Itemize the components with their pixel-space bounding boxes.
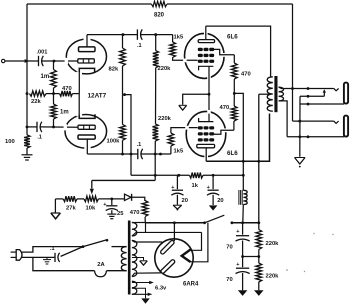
ground jacks <box>295 158 306 168</box>
svg-text:100k: 100k <box>107 139 121 145</box>
label 6L6 lower <box>227 150 238 157</box>
svg-text:+: + <box>236 262 239 268</box>
label 6.3v <box>155 286 167 292</box>
svg-text:22k: 22k <box>31 99 41 105</box>
wire 1m node to 470 <box>54 93 60 95</box>
svg-text:10k: 10k <box>86 206 96 212</box>
node choke column junctions <box>242 174 245 177</box>
ground cap70b <box>238 290 248 296</box>
capacitor 70 second <box>226 257 249 284</box>
resistor 220k psu lower <box>256 263 279 282</box>
svg-text:1m: 1m <box>41 74 50 80</box>
ground cap20a <box>173 205 182 210</box>
wire cathode tee to ground <box>183 94 209 105</box>
wire V3 screen hook <box>214 130 234 134</box>
rectifier V4 plate 1 <box>160 240 175 255</box>
wire cap20a to ground <box>176 195 178 205</box>
svg-text:25: 25 <box>117 211 124 217</box>
wire cap line branch <box>33 256 55 258</box>
wire V3 plate down <box>205 148 207 162</box>
resistor 220k upper <box>153 51 171 72</box>
svg-text:6L6: 6L6 <box>227 34 238 41</box>
capacitor .1 line <box>50 246 60 262</box>
wire 470 to cathode link <box>73 93 80 95</box>
wire 1k5 upper top <box>172 35 174 42</box>
wire left feedback rail down <box>26 4 28 135</box>
jack J2 tip contact <box>334 121 339 124</box>
resistor 220k lower <box>153 116 172 141</box>
potentiometer 10k <box>84 196 98 211</box>
wire 82k top lead <box>122 35 124 48</box>
wire B+ filter line right <box>203 174 243 176</box>
svg-text:70: 70 <box>226 277 232 283</box>
svg-text:20: 20 <box>217 198 223 204</box>
rectifier V4 plate 2 <box>160 259 175 274</box>
wire 1k5 lower bottom <box>170 146 172 154</box>
wire rectifier plate loop top <box>191 232 202 250</box>
capacitor .1 coupling upper <box>137 29 142 48</box>
wire B+ filter line <box>131 174 190 176</box>
node 82k top <box>122 33 125 36</box>
wire OT secondary top lead <box>279 87 293 88</box>
plug body <box>16 250 22 261</box>
wire HV center tap <box>132 258 144 261</box>
wire V1b plate down <box>86 139 88 154</box>
wire cathode link to V3 <box>208 94 210 121</box>
wire 220k psu upper leads <box>258 223 260 257</box>
transformer T2 secondary <box>279 87 284 101</box>
wire plug top <box>22 247 83 253</box>
svg-text:6AR4: 6AR4 <box>183 282 199 288</box>
wire 1k5 upper to grid <box>173 57 198 60</box>
resistor 470 bias <box>130 201 148 217</box>
wire cap25 to ground <box>111 210 113 214</box>
junction grid1 node <box>53 60 56 63</box>
node cathode tee <box>208 93 211 96</box>
wire feedback top rail right segment <box>167 3 293 5</box>
diode D1 <box>125 194 132 201</box>
fuse 2A <box>95 262 107 277</box>
triode V1a envelope <box>65 38 107 76</box>
plug prongs <box>11 252 17 257</box>
pentode V2 envelope <box>183 32 226 80</box>
transformer T2 primary <box>267 77 273 111</box>
svg-text:.1: .1 <box>137 43 142 49</box>
svg-text:+: + <box>103 202 106 208</box>
wire bias feed vertical <box>154 154 156 180</box>
ground 6L6 cathodes <box>179 105 187 110</box>
wire standby line right <box>232 222 259 224</box>
pentode V2 plate <box>198 40 214 43</box>
wire feedback right rail down <box>292 4 294 121</box>
transformer T1 primary <box>121 247 126 271</box>
wire HV top lead <box>132 240 162 242</box>
svg-text:470: 470 <box>241 72 251 78</box>
svg-text:1m: 1m <box>60 110 69 116</box>
wire cap to grid <box>42 60 78 62</box>
resistor 1k5 upper <box>170 35 184 58</box>
svg-text:20: 20 <box>182 198 188 204</box>
triode V1b plate <box>78 135 95 139</box>
svg-text:1k5: 1k5 <box>174 149 184 155</box>
triode V1b grid <box>78 125 95 129</box>
wire V2 plate up <box>205 26 207 39</box>
speck marks <box>286 233 333 272</box>
rectifier V4 envelope <box>155 239 193 277</box>
pentode V3 envelope <box>185 110 227 159</box>
jack J1 tip contact <box>334 88 339 91</box>
node plate2 junctions <box>121 153 132 156</box>
svg-text:220k: 220k <box>158 66 172 72</box>
wire HV bottom lead <box>132 273 161 277</box>
node jack1 shorting junction <box>307 95 310 98</box>
svg-text:470: 470 <box>220 105 230 111</box>
wire V1a cathode down <box>78 73 80 94</box>
wire 470 screen lower to node <box>233 93 235 106</box>
wire jack1 tip line <box>293 88 334 90</box>
wire jack1 sleeve line <box>300 103 344 105</box>
wire 470 bias to line <box>144 217 146 223</box>
ground cap25 <box>107 214 116 219</box>
wire jack2 tip line <box>293 120 334 122</box>
wire wiper stem <box>91 180 93 188</box>
node jack2 sleeve junctions <box>298 135 309 138</box>
svg-text:.1: .1 <box>37 134 42 140</box>
pentode V3 plate <box>197 144 215 147</box>
triode V1a grid <box>78 59 95 63</box>
svg-text:820: 820 <box>154 13 165 19</box>
resistor 22k <box>30 91 47 105</box>
choke L1 coil <box>243 190 247 204</box>
wire 220k upper top lead <box>155 35 157 51</box>
wire 22k to 1m node <box>46 93 54 95</box>
wire V3 plate line to OT <box>206 114 269 162</box>
wire fuse to primary <box>107 270 127 272</box>
ground below 100 <box>22 155 33 160</box>
node rectifier junction <box>173 221 176 224</box>
wire V2 screen hook <box>214 49 234 54</box>
wire pot to diode <box>98 198 124 200</box>
wire cap20b to ground <box>212 195 214 205</box>
ground line cap <box>43 257 51 264</box>
wire heater top lead <box>132 281 154 284</box>
resistor 1m lower <box>51 104 69 119</box>
wire 82k bottom lead <box>122 66 124 95</box>
choke L1 core <box>239 190 242 205</box>
wire plate2 line <box>87 153 138 155</box>
svg-text:82k: 82k <box>109 67 119 73</box>
node B+ filter junctions <box>154 174 180 177</box>
ground cap20b <box>209 205 218 210</box>
node cap25 junction <box>110 197 113 200</box>
node 220k top <box>154 33 157 36</box>
wire center tap rail <box>258 94 260 223</box>
wire plug bottom <box>22 257 95 270</box>
svg-text:220k: 220k <box>158 116 172 122</box>
wire cap70a down <box>242 241 244 257</box>
wire 220k lower bottom lead <box>154 141 156 154</box>
triode V1a plate <box>79 47 96 52</box>
svg-text:220k: 220k <box>266 241 280 247</box>
wire standby line left <box>145 222 204 224</box>
wire screen node to choke column <box>234 93 243 190</box>
wire V2 screen to 470 <box>233 55 235 63</box>
transformer T1 bias winding <box>132 223 137 237</box>
ground 220k psu <box>254 290 263 296</box>
capacitor .1 coupling lower <box>137 142 143 159</box>
wire 470 screen upper to node <box>233 79 235 93</box>
ground 27k <box>51 213 61 219</box>
wire V1a plate up <box>86 35 88 47</box>
wire 100 to ground <box>26 148 28 155</box>
wire bias jog <box>92 179 155 181</box>
rectifier V4 filament <box>182 250 191 263</box>
wire jack2 sleeve line <box>287 136 344 138</box>
node grid2 junctions <box>26 125 55 128</box>
wire 100k top lead <box>122 95 124 125</box>
node plate line crossings <box>242 160 260 163</box>
pentode V2 grid rows <box>198 48 214 63</box>
wire diode to 470 bias <box>132 197 145 201</box>
svg-text:+: + <box>236 229 239 235</box>
transformer T1 core <box>128 221 131 295</box>
resistor 1m upper <box>41 70 57 89</box>
wire plate1 line <box>87 34 137 36</box>
resistor 220k psu upper <box>256 230 279 250</box>
capacitor 20 first <box>171 175 188 204</box>
wire plate to OT primary top <box>206 26 271 77</box>
svg-text:2A: 2A <box>97 262 105 268</box>
wire psu mid link <box>243 256 259 258</box>
resistor 1k5 lower <box>168 133 184 155</box>
node jack1 tip junctions <box>291 87 309 90</box>
wire grid line lower right <box>141 153 171 155</box>
ground HV center tap <box>140 261 148 265</box>
resistor 100k <box>107 124 126 144</box>
resistor 470 screen lower <box>220 105 238 121</box>
wire switch to primary <box>112 246 127 248</box>
wire 220k psu lower leads <box>258 257 260 291</box>
node jack1 sleeve junction <box>307 103 310 106</box>
wire grid2 to tube <box>40 126 78 128</box>
wire OT center tap <box>259 93 270 95</box>
node psu mid junctions <box>241 255 260 258</box>
capacitor .1 grid2 <box>37 122 42 141</box>
switch standby <box>203 215 233 224</box>
capacitor 20 second <box>207 175 224 204</box>
svg-text:470: 470 <box>130 210 140 216</box>
ground heater CT <box>141 298 150 303</box>
label 12AT7 <box>88 93 107 100</box>
svg-text:.001: .001 <box>37 50 48 56</box>
wire V3 screen to 470 <box>233 121 235 130</box>
wire 1m lower to grid2 line <box>53 94 55 127</box>
svg-text:1k: 1k <box>192 183 199 189</box>
svg-text:70: 70 <box>226 245 232 251</box>
wire bias winding bottom <box>132 232 202 236</box>
transformer T1 heater winding <box>132 281 137 294</box>
wire PI supply elbow <box>125 95 132 176</box>
wire input line <box>5 59 39 63</box>
resistor 1k <box>190 173 204 190</box>
wire heater bottom lead <box>132 293 152 296</box>
wire 27k to 10k <box>55 198 84 200</box>
wire choke to standby line <box>242 205 245 223</box>
node screen supply <box>233 92 236 95</box>
label 6AR4 <box>183 282 199 288</box>
svg-text:.1: .1 <box>137 142 142 148</box>
svg-text:+: + <box>171 185 174 191</box>
transformer T2 core <box>274 76 277 112</box>
resistor 27k <box>63 196 77 211</box>
wire cap70b down <box>242 273 244 290</box>
svg-text:6L6: 6L6 <box>227 150 238 157</box>
svg-text:6.3v: 6.3v <box>155 286 167 292</box>
input terminal <box>2 59 5 62</box>
wire 100k bottom lead <box>122 140 124 154</box>
jack J2 sleeve <box>344 116 348 137</box>
wire feedback top rail left segment <box>27 3 151 5</box>
triode V1b envelope <box>64 113 107 150</box>
wire V1b cathode up <box>78 94 80 115</box>
node standby junctions <box>241 221 260 224</box>
svg-text:.1: .1 <box>50 246 55 252</box>
label 6L6 upper <box>227 34 238 41</box>
resistor 100 <box>5 135 30 148</box>
pentode V3 grid rows <box>198 126 214 141</box>
wire 27k gnd elbow <box>54 199 56 213</box>
svg-text:100: 100 <box>5 139 15 145</box>
wire jack ground rail <box>299 96 301 157</box>
resistor 820 <box>151 1 167 18</box>
node cathode line junctions <box>26 92 55 95</box>
node PI supply junction <box>123 93 126 96</box>
wire 1m to cathode line <box>53 61 55 94</box>
wire grid2 stub <box>27 126 37 128</box>
wire rectifier cathode up <box>173 223 175 241</box>
node jack2 tip junction <box>298 120 301 123</box>
wire heater CT <box>132 288 146 298</box>
node bias lower junctions <box>154 153 162 156</box>
node filter cap2 junction <box>212 174 215 177</box>
wire jack1 shorting line <box>300 95 324 97</box>
svg-text:12AT7: 12AT7 <box>88 93 107 100</box>
capacitor 70 first <box>226 223 249 251</box>
wire V2 cathode down <box>208 66 210 94</box>
svg-text:27k: 27k <box>66 206 76 212</box>
resistor 82k <box>109 48 126 73</box>
triode V1a cathode <box>79 68 94 72</box>
capacitor .001 <box>37 50 48 67</box>
switch power <box>82 239 109 248</box>
transformer T1 HV winding <box>132 240 137 276</box>
wire cap slant <box>61 247 83 257</box>
wire OT secondary bottom <box>279 101 288 137</box>
wire bias winding top <box>132 223 146 233</box>
wire filament return <box>191 223 208 262</box>
jack J1 sleeve <box>344 83 348 104</box>
resistor 470 screen upper <box>231 63 250 79</box>
svg-text:470: 470 <box>62 86 72 92</box>
capacitor 25 <box>103 199 124 217</box>
jack J1 shorting arrow <box>323 89 326 96</box>
svg-text:+: + <box>207 185 210 191</box>
pentode V2 cathode <box>199 66 214 70</box>
resistor 470 cathode <box>60 86 73 96</box>
triode V1b cathode <box>79 114 95 118</box>
pot wiper arrow <box>90 189 94 194</box>
pentode V3 cathode <box>199 118 214 122</box>
wire 1k5 lower to grid <box>171 128 198 133</box>
wire 220k mid link <box>155 68 157 124</box>
wire plate1 line right <box>141 34 173 36</box>
svg-text:1k5: 1k5 <box>174 35 184 41</box>
svg-text:220k: 220k <box>266 274 280 280</box>
